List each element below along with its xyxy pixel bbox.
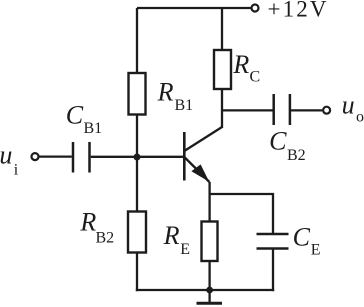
wire RE bottom	[208, 261, 210, 290]
terminal ui	[32, 153, 39, 160]
node base junction	[134, 154, 141, 161]
wire RB2 bottom	[136, 253, 138, 292]
wire emitter	[208, 182, 210, 222]
svg-text:+12V: +12V	[268, 0, 327, 22]
resistor RC	[214, 50, 231, 89]
svg-text:B2: B2	[287, 147, 306, 164]
power terminal +12V	[252, 5, 259, 12]
wire CE bottom	[272, 249, 274, 292]
svg-text:E: E	[180, 241, 190, 258]
svg-text:o: o	[356, 109, 364, 126]
wire RB1 bottom	[136, 115, 138, 158]
svg-text:C: C	[293, 223, 311, 252]
svg-text:B1: B1	[84, 120, 103, 137]
ground	[197, 290, 223, 303]
svg-text:C: C	[250, 69, 261, 86]
svg-text:i: i	[14, 162, 19, 179]
svg-text:u: u	[0, 141, 12, 170]
wire base	[91, 156, 184, 158]
svg-text:C: C	[269, 127, 287, 156]
wire top rail	[137, 7, 251, 9]
capacitor CB1	[73, 142, 90, 173]
svg-text:R: R	[157, 78, 174, 107]
wire RB2 top	[136, 157, 138, 212]
node ground junction	[206, 287, 213, 294]
transistor V1	[184, 127, 222, 182]
svg-text:B1: B1	[175, 97, 194, 114]
capacitor CE	[257, 234, 289, 249]
wire RC top	[221, 8, 223, 50]
wire CB2 to output	[291, 109, 322, 111]
svg-text:R: R	[232, 50, 249, 79]
resistor RB1	[129, 73, 146, 115]
resistor RB2	[128, 212, 146, 253]
svg-text:C: C	[66, 101, 84, 130]
wire CB2 tap	[222, 109, 273, 111]
capacitor CB2	[274, 94, 290, 125]
resistor RE	[202, 222, 218, 262]
svg-text:R: R	[163, 221, 180, 250]
wire bottom rail	[136, 289, 274, 291]
svg-text:u: u	[342, 91, 355, 120]
wire RB1 top	[136, 8, 138, 73]
wire input	[39, 155, 72, 157]
wire CE tap	[210, 194, 273, 234]
terminal uo	[323, 107, 330, 114]
svg-text:B2: B2	[96, 230, 115, 247]
svg-text:R: R	[79, 208, 96, 237]
svg-text:E: E	[311, 242, 321, 259]
wire RC bottom	[221, 89, 223, 128]
